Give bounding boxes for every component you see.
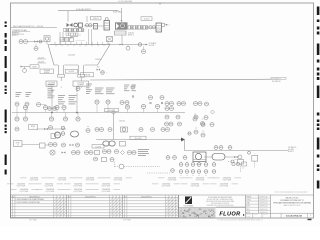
svg-text:NO: NO bbox=[124, 196, 126, 198]
instrument bubble bbox=[201, 123, 205, 127]
chute text column bbox=[48, 85, 55, 98]
svg-text:xx: xx bbox=[229, 146, 231, 148]
revision row text bbox=[12, 196, 126, 204]
instrument bubble bbox=[204, 116, 208, 120]
separator drop pair bbox=[89, 29, 92, 45]
svg-text:xx: xx bbox=[202, 134, 204, 136]
svg-text:xx: xx bbox=[16, 128, 18, 130]
svg-text:12-XXXX: 12-XXXX bbox=[95, 59, 101, 61]
svg-text:xx: xx bbox=[25, 106, 27, 108]
hopper lower label box bbox=[73, 81, 89, 87]
valve bbox=[62, 152, 66, 154]
svg-text:xx: xx bbox=[102, 71, 104, 73]
svg-text:xx: xx bbox=[171, 102, 173, 104]
svg-text:xx: xx bbox=[87, 129, 89, 131]
svg-text:xx: xx bbox=[179, 123, 181, 125]
dashed run bbox=[124, 166, 160, 168]
instrument bubble bbox=[149, 96, 153, 100]
instrument bubble bbox=[165, 102, 169, 106]
svg-text:12-E-0704: 12-E-0704 bbox=[168, 178, 176, 180]
hopper chute bbox=[58, 65, 65, 77]
svg-text:xx: xx bbox=[51, 118, 53, 120]
wire to collector bbox=[46, 41, 48, 44]
svg-text:xx: xx bbox=[150, 96, 152, 98]
svg-text:12-H-05B: 12-H-05B bbox=[77, 82, 83, 84]
svg-text:J.SMITH 6-94: J.SMITH 6-94 bbox=[259, 197, 267, 199]
hopper discharge drop bbox=[51, 77, 61, 92]
svg-text:12-E-0704: 12-E-0704 bbox=[220, 184, 228, 186]
svg-text:xx: xx bbox=[195, 131, 197, 133]
svg-text:12-D-001: 12-D-001 bbox=[68, 54, 75, 56]
svg-text:xx: xx bbox=[73, 151, 75, 153]
svg-text:xx: xx bbox=[95, 158, 97, 160]
title block heading notes bbox=[275, 189, 308, 194]
svg-text:xx: xx bbox=[90, 151, 92, 153]
small box bbox=[95, 151, 100, 155]
svg-text:xxx: xxx bbox=[195, 128, 197, 130]
svg-text:xx: xx bbox=[167, 128, 169, 130]
svg-text:12-E-0704: 12-E-0704 bbox=[74, 184, 82, 186]
svg-text:TO UNIT 14: TO UNIT 14 bbox=[272, 79, 281, 81]
notes text block bbox=[12, 29, 30, 37]
svg-text:xx: xx bbox=[220, 146, 222, 148]
instrument bubble bbox=[15, 102, 19, 113]
svg-text:xx: xx bbox=[157, 105, 159, 107]
vent bubble bbox=[101, 71, 107, 75]
svg-text:x x x x x x x x x x: x x x x x x x x x x bbox=[75, 40, 85, 42]
svg-text:12-E-0704: 12-E-0704 bbox=[223, 178, 231, 180]
svg-text:xx: xx bbox=[215, 146, 217, 148]
svg-text:D-12-E-0704-121: D-12-E-0704-121 bbox=[286, 214, 303, 217]
instrument bubble bbox=[62, 143, 66, 147]
svg-text:HOPPER: HOPPER bbox=[44, 72, 50, 74]
film edge marks left bbox=[5, 22, 7, 175]
drop wires bbox=[60, 32, 78, 45]
instrument bubble bbox=[85, 151, 89, 155]
labelled bubble bbox=[194, 128, 198, 134]
blower K-1B package bbox=[115, 22, 128, 29]
instrument bubble bbox=[72, 151, 76, 155]
instrument bubble bbox=[194, 115, 198, 119]
hopper lower label box bbox=[46, 81, 57, 87]
instrument bubble bbox=[125, 105, 129, 113]
svg-text:12-E-0704: 12-E-0704 bbox=[17, 184, 25, 186]
train B feed line bbox=[113, 8, 122, 22]
company box frame bbox=[179, 195, 246, 218]
pump circle bbox=[55, 132, 61, 138]
instrument bubble bbox=[25, 102, 29, 113]
svg-text:XX-1402-12: XX-1402-12 bbox=[272, 81, 281, 83]
svg-text:xx: xx bbox=[166, 123, 168, 125]
svg-text:xx: xx bbox=[20, 40, 22, 42]
inline valve bbox=[126, 43, 146, 46]
instrument bubble bbox=[170, 107, 174, 111]
instrument bubble bbox=[24, 40, 28, 44]
instrument bubble bbox=[23, 113, 27, 122]
air heater bank A bbox=[64, 29, 84, 32]
instrument bubble bbox=[55, 105, 59, 112]
pump pair bbox=[103, 141, 115, 146]
svg-text:xx: xx bbox=[108, 150, 110, 152]
svg-text:xx: xx bbox=[140, 128, 142, 130]
lower bus line bbox=[96, 136, 184, 140]
instrument bubble bbox=[85, 24, 88, 27]
wire bbox=[22, 144, 49, 147]
svg-text:12-E-0704: 12-E-0704 bbox=[191, 184, 199, 186]
instrument bubble bbox=[61, 132, 65, 136]
svg-text:1: 1 bbox=[310, 215, 311, 217]
svg-text:xx: xx bbox=[107, 101, 109, 103]
company text block bbox=[206, 196, 234, 207]
svg-text:xx: xx bbox=[171, 107, 173, 109]
pump label box bbox=[92, 145, 104, 149]
svg-text:xx: xx bbox=[202, 123, 204, 125]
instrument bubble bbox=[110, 158, 114, 162]
collector header line bbox=[50, 45, 122, 47]
dashed lateral bbox=[147, 169, 174, 173]
drain box 2 bbox=[248, 151, 258, 168]
plot stamp left bbox=[29, 218, 37, 221]
instrument bubble bbox=[176, 115, 180, 119]
labelled bubble bbox=[201, 119, 205, 126]
svg-text:xx: xx bbox=[177, 116, 179, 118]
svg-text:xx: xx bbox=[143, 105, 145, 107]
precip vessel B bbox=[156, 23, 162, 32]
bottom symbols row 2 bbox=[179, 170, 216, 177]
instrument bubble bbox=[165, 122, 169, 126]
instrument bubble bbox=[95, 100, 99, 113]
instrument bubble bbox=[194, 102, 198, 106]
svg-text:xx: xx bbox=[45, 106, 47, 108]
valve bbox=[28, 40, 44, 42]
small box bbox=[102, 158, 107, 162]
plot stamp mid bbox=[123, 218, 131, 221]
svg-text:xx: xx bbox=[96, 101, 98, 103]
svg-text:12-E-0704: 12-E-0704 bbox=[86, 178, 94, 180]
spec text block bbox=[58, 96, 65, 104]
instrument bubble bbox=[48, 107, 52, 111]
svg-text:12-H-05B: 12-H-05B bbox=[84, 75, 90, 77]
svg-text:xx: xx bbox=[54, 143, 56, 145]
hatch box B bbox=[115, 31, 134, 37]
instrument bubble bbox=[43, 105, 47, 112]
svg-text:xx: xx bbox=[96, 128, 98, 130]
svg-text:xx: xx bbox=[26, 103, 28, 105]
svg-text:FLUOR: FLUOR bbox=[219, 212, 240, 218]
svg-text:12: 12 bbox=[17, 145, 19, 147]
svg-text:xx: xx bbox=[25, 40, 27, 42]
hopper discharge drop bbox=[76, 77, 81, 93]
svg-text:12-E-0704: 12-E-0704 bbox=[196, 178, 204, 180]
svg-text:xx: xx bbox=[56, 106, 58, 108]
svg-text:12-E-0704: 12-E-0704 bbox=[102, 189, 110, 191]
instrument bubble bbox=[165, 115, 169, 119]
instrument bubble bbox=[183, 156, 187, 160]
svg-text:xx: xx bbox=[184, 156, 186, 158]
svg-text:HOPPER: HOPPER bbox=[78, 85, 84, 87]
wire bbox=[87, 16, 104, 26]
main offgas line bbox=[90, 78, 272, 81]
svg-text:xx: xx bbox=[126, 101, 128, 103]
svg-text:xx xx: xx xx bbox=[235, 159, 238, 161]
svg-text:CHECK: CHECK bbox=[246, 200, 251, 202]
instrument bubble bbox=[103, 150, 107, 154]
instrument bubble bbox=[49, 143, 53, 147]
svg-text:xx: xx bbox=[206, 103, 208, 105]
tag text cluster bbox=[95, 88, 104, 94]
svg-text:xx: xx bbox=[170, 123, 172, 125]
box row above vessel bbox=[60, 35, 81, 42]
tag text cluster bbox=[16, 93, 22, 97]
note box bbox=[29, 125, 38, 131]
bus label box bbox=[105, 108, 119, 112]
train B drop bbox=[121, 35, 123, 45]
svg-text:xx: xx bbox=[38, 103, 40, 105]
instrument bubble bbox=[76, 143, 80, 147]
instrument bubble bbox=[107, 150, 111, 154]
instrument bubble bbox=[49, 113, 53, 122]
labelled bubble bbox=[193, 114, 197, 121]
svg-text:12-E-0704: 12-E-0704 bbox=[162, 184, 170, 186]
side label box bbox=[30, 65, 39, 69]
instrument bubble bbox=[182, 102, 186, 106]
svg-text:xx: xx bbox=[129, 151, 131, 153]
title text bbox=[273, 197, 311, 208]
tag text cluster bbox=[86, 84, 92, 94]
svg-text:xx: xx bbox=[16, 103, 18, 105]
svg-text:TO UNIT 16: TO UNIT 16 bbox=[288, 147, 296, 149]
svg-text:PROJ: PROJ bbox=[246, 209, 250, 211]
instrument bubble bbox=[177, 102, 181, 106]
bus junction dots bbox=[51, 112, 77, 113]
svg-text:FLOW DIAGRAM: FLOW DIAGRAM bbox=[118, 0, 133, 3]
instrument bubble bbox=[219, 146, 223, 150]
svg-text:xx: xx bbox=[132, 86, 134, 88]
svg-text:12-K-01: 12-K-01 bbox=[93, 18, 99, 20]
svg-text:xx: xx bbox=[77, 144, 79, 146]
outlet boxes bbox=[162, 23, 171, 26]
hopper drops bbox=[52, 86, 81, 112]
svg-text:12-E-03: 12-E-03 bbox=[128, 33, 134, 35]
svg-text:xx: xx bbox=[195, 116, 197, 118]
separator A bbox=[94, 24, 98, 30]
svg-text:XX-1601: XX-1601 bbox=[288, 149, 294, 151]
instrument bubble bbox=[149, 26, 152, 29]
bag compartment ticks bbox=[55, 40, 108, 45]
svg-text:xx: xx bbox=[166, 116, 168, 118]
svg-text:12-E-0704: 12-E-0704 bbox=[20, 189, 28, 191]
instrument bubble bbox=[166, 128, 170, 132]
svg-text:J.SMITH 6-94: J.SMITH 6-94 bbox=[259, 206, 267, 208]
instrument bubble bbox=[15, 113, 19, 122]
svg-text:INLET GAS FROM UNIT 12 — XX-12: INLET GAS FROM UNIT 12 — XX-1204 bbox=[13, 25, 43, 28]
svg-text:xx: xx bbox=[162, 128, 164, 130]
mid wire bbox=[37, 128, 67, 130]
transfer line bbox=[185, 150, 289, 152]
svg-text:xx: xx bbox=[211, 123, 213, 125]
svg-text:xx: xx bbox=[116, 150, 118, 152]
svg-text:xx: xx bbox=[133, 151, 135, 153]
instrument bubble bbox=[23, 105, 27, 112]
svg-text:DESCRIPTION: DESCRIPTION bbox=[29, 196, 39, 198]
instrument bubble bbox=[108, 128, 112, 132]
certification stamp bbox=[179, 208, 216, 218]
valve station bbox=[225, 155, 242, 159]
instrument bubble bbox=[37, 103, 47, 107]
filter unit F-1 bbox=[44, 36, 50, 42]
svg-text:1 02/14 ISSUED FOR CLIENT RE: 1 02/14 ISSUED FOR CLIENT REVIEW bbox=[16, 199, 45, 201]
svg-text:xx: xx bbox=[167, 156, 169, 158]
svg-text:xx: xx bbox=[183, 102, 185, 104]
small box bbox=[40, 143, 46, 148]
instrument bubble bbox=[198, 102, 202, 106]
instrument bubble bbox=[142, 46, 146, 53]
instrument bubble bbox=[151, 128, 155, 132]
svg-text:xx: xx bbox=[152, 128, 154, 130]
svg-text:xx: xx bbox=[174, 156, 176, 158]
svg-text:xxx: xxx bbox=[87, 126, 89, 128]
instrument bubble bbox=[152, 26, 155, 29]
svg-text:DWG NO: DWG NO bbox=[263, 214, 268, 216]
svg-text:J.SMITH 6-94: J.SMITH 6-94 bbox=[259, 203, 267, 205]
svg-text:xx: xx bbox=[104, 150, 106, 152]
instrument bubble bbox=[166, 156, 170, 160]
instrument bubble bbox=[39, 40, 42, 43]
instrument bubble bbox=[89, 151, 93, 155]
instrument bubble bbox=[161, 128, 165, 132]
svg-text:FLUE GAS SUPPLY: FLUE GAS SUPPLY bbox=[76, 8, 92, 11]
svg-text:12-E-0704: 12-E-0704 bbox=[30, 178, 38, 180]
wire dashed bbox=[84, 24, 93, 26]
svg-text:NOTE 3: NOTE 3 bbox=[12, 35, 18, 37]
svg-text:12-L-0145: 12-L-0145 bbox=[135, 138, 142, 140]
svg-text:xx: xx bbox=[77, 151, 79, 153]
svg-text:xxx: xxx bbox=[242, 168, 244, 170]
svg-text:xx: xx bbox=[50, 143, 52, 145]
instrument bubble bbox=[106, 100, 110, 113]
svg-text:SCRUBBER SYSTEM UNIT 12: SCRUBBER SYSTEM UNIT 12 bbox=[280, 200, 304, 202]
svg-text:xxx: xxx bbox=[201, 119, 203, 121]
svg-text:12-E-0704: 12-E-0704 bbox=[45, 184, 53, 186]
instrument bubble bbox=[115, 150, 119, 154]
hopper chute bbox=[78, 65, 85, 77]
diamond symbol bbox=[121, 151, 125, 155]
svg-text:xxx: xxx bbox=[202, 131, 204, 133]
svg-text:12-L-0121: 12-L-0121 bbox=[108, 110, 115, 112]
svg-text:xx: xx bbox=[50, 126, 52, 128]
svg-text:xx: xx bbox=[109, 128, 111, 130]
title block signatures bbox=[246, 195, 314, 218]
lower bank A bbox=[64, 33, 78, 40]
instrument bubble bbox=[53, 143, 57, 147]
instrument bubble bbox=[132, 151, 136, 155]
heater vessel A bbox=[104, 18, 110, 31]
svg-text:xx: xx bbox=[63, 144, 65, 146]
corner dash bbox=[308, 219, 312, 220]
instrument bubble bbox=[94, 157, 98, 161]
svg-text:DESCRIPTION: DESCRIPTION bbox=[141, 196, 151, 198]
instrument bubble bbox=[76, 151, 80, 155]
svg-text:CONTR: CONTR bbox=[254, 214, 259, 216]
train A feed line bbox=[58, 8, 119, 22]
instrument bubble bbox=[49, 126, 53, 130]
svg-text:xx: xx bbox=[101, 128, 103, 130]
labelled bubble bbox=[201, 131, 205, 137]
drain dot bbox=[132, 96, 163, 104]
instrument bubble bbox=[169, 122, 173, 126]
instrument bubble bbox=[34, 44, 38, 51]
svg-text:NOTE: NOTE bbox=[31, 126, 35, 128]
outlet arrow bbox=[146, 42, 158, 47]
hopper label box bbox=[65, 69, 77, 73]
instrument bubble bbox=[76, 113, 80, 122]
mid box bbox=[121, 127, 128, 132]
labelled bubble bbox=[86, 126, 90, 133]
junction arrows bbox=[181, 138, 185, 151]
instrument bubble bbox=[131, 85, 135, 89]
instrument bubble bbox=[125, 101, 129, 105]
svg-text:J.SMITH 6-94: J.SMITH 6-94 bbox=[259, 200, 267, 202]
instrument bubble bbox=[19, 40, 23, 44]
svg-text:xx: xx bbox=[161, 96, 163, 98]
instrument bubble bbox=[63, 113, 67, 122]
tag text cluster bbox=[106, 88, 115, 94]
svg-text:xx: xx bbox=[195, 102, 197, 104]
svg-text:xx: xx bbox=[111, 158, 113, 160]
hopper label box bbox=[40, 69, 54, 74]
instrument bubble bbox=[53, 107, 57, 111]
fluor daniel diamond logo bbox=[184, 197, 194, 208]
instrument bubble bbox=[170, 102, 174, 106]
drain assembly bbox=[228, 160, 244, 173]
svg-text:xx: xx bbox=[35, 47, 37, 49]
svg-text:CERTIFIED FOR CONSTRUCTION REC: CERTIFIED FOR CONSTRUCTION RECORD bbox=[207, 205, 234, 207]
blower K-1A drive bbox=[67, 23, 83, 27]
svg-text:NO: NO bbox=[68, 196, 70, 198]
spec text block bbox=[69, 96, 77, 104]
instrument bubble bbox=[188, 132, 191, 135]
svg-text:12-E-0704: 12-E-0704 bbox=[46, 189, 54, 191]
blower package bbox=[193, 152, 206, 165]
slant label bbox=[95, 59, 101, 61]
svg-text:12-G-08: 12-G-08 bbox=[95, 146, 101, 148]
instrument bubble bbox=[100, 128, 104, 132]
instrument bubble bbox=[228, 146, 232, 150]
bus junction valve bbox=[112, 111, 116, 140]
bus label bbox=[119, 121, 125, 123]
svg-text:xx: xx bbox=[199, 102, 201, 104]
svg-text:12-P-06: 12-P-06 bbox=[119, 121, 125, 123]
revision table bbox=[11, 195, 179, 218]
svg-text:xx: xx bbox=[63, 106, 65, 108]
note text bbox=[138, 150, 149, 156]
svg-text:xx: xx bbox=[205, 116, 207, 118]
instrument bubble bbox=[120, 101, 124, 105]
diamond symbol bbox=[211, 110, 215, 114]
instrument bubble bbox=[61, 126, 65, 130]
air heater bank B bbox=[128, 26, 148, 29]
instrument bus line bbox=[12, 112, 185, 114]
svg-text:NO: NO bbox=[12, 196, 14, 198]
instrument bubble bbox=[141, 104, 145, 112]
svg-text:J.SMITH 6-94: J.SMITH 6-94 bbox=[259, 209, 267, 211]
svg-text:12-E-0704: 12-E-0704 bbox=[102, 184, 110, 186]
svg-text:xx: xx bbox=[16, 118, 18, 120]
svg-text:xx: xx bbox=[166, 107, 168, 109]
svg-text:xx: xx bbox=[65, 118, 67, 120]
pump box bbox=[51, 134, 56, 139]
mid box2 bbox=[120, 142, 126, 147]
